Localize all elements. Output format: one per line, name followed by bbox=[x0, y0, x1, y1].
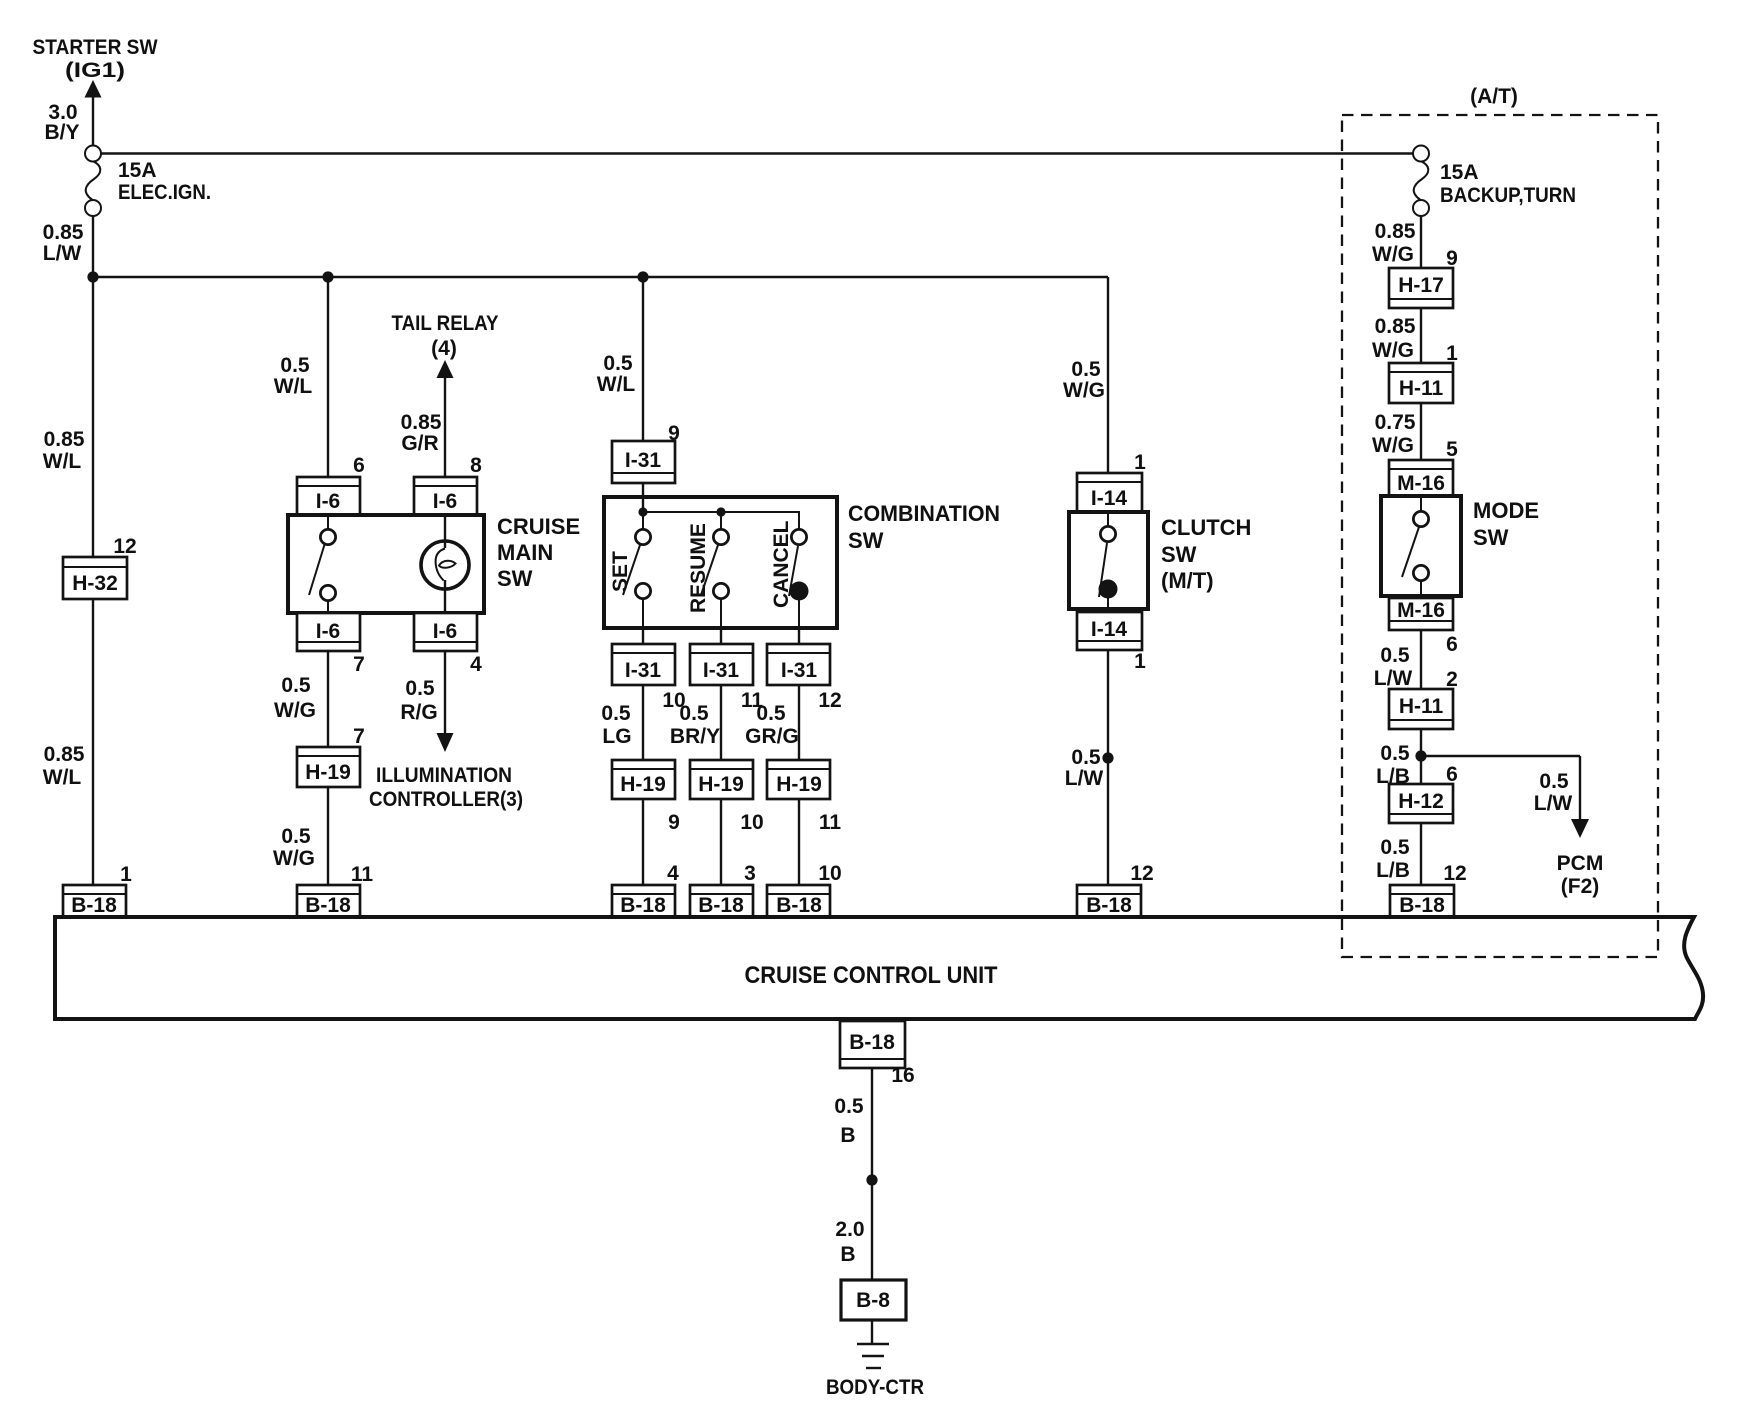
svg-text:BACKUP,TURN: BACKUP,TURN bbox=[1440, 184, 1576, 207]
switch box COMBINATION SW bbox=[604, 497, 1000, 628]
lamp in cruise main sw bbox=[421, 515, 469, 613]
svg-text:STARTER SW: STARTER SW bbox=[33, 36, 158, 59]
wire I-31 to box bbox=[642, 483, 644, 513]
connector B-18 pin 1 bbox=[63, 863, 132, 917]
connector B-8 bbox=[841, 1280, 906, 1320]
svg-text:10: 10 bbox=[818, 862, 841, 885]
svg-text:0.5: 0.5 bbox=[1380, 644, 1410, 667]
svg-text:(IG1): (IG1) bbox=[65, 59, 125, 82]
svg-text:10: 10 bbox=[740, 811, 763, 834]
svg-text:1: 1 bbox=[1134, 451, 1146, 474]
wire top feed bus bbox=[101, 152, 1413, 154]
svg-text:6: 6 bbox=[353, 454, 365, 477]
svg-text:4: 4 bbox=[667, 862, 679, 885]
svg-text:0.5: 0.5 bbox=[601, 702, 631, 725]
svg-text:MODE: MODE bbox=[1473, 498, 1539, 523]
svg-text:0.85: 0.85 bbox=[44, 428, 85, 451]
node STARTER SW (IG1) label bbox=[33, 36, 158, 82]
svg-text:LG: LG bbox=[602, 725, 631, 748]
svg-text:B/Y: B/Y bbox=[44, 121, 79, 144]
svg-text:CRUISE: CRUISE bbox=[497, 514, 580, 539]
connector B-18 pin 12 bbox=[1077, 862, 1154, 917]
svg-text:11: 11 bbox=[819, 811, 842, 834]
svg-text:9: 9 bbox=[1446, 247, 1458, 270]
connector B-18 pin 10 bbox=[767, 862, 842, 917]
svg-text:BR/Y: BR/Y bbox=[670, 725, 720, 748]
svg-text:L/B: L/B bbox=[1376, 859, 1410, 882]
switch contacts in cruise main sw bbox=[309, 515, 336, 613]
connector H-19 pin 11 bbox=[767, 760, 841, 834]
wire H-11 to M-16 bbox=[1420, 403, 1422, 460]
connector I-6 pin 6 bbox=[297, 454, 365, 515]
connector H-17 pin 9 bbox=[1389, 247, 1458, 308]
wire label 0.85 W/L upper bbox=[43, 428, 85, 473]
svg-text:0.5: 0.5 bbox=[679, 702, 709, 725]
connector H-19 pin 9 bbox=[612, 760, 680, 834]
svg-text:B-18: B-18 bbox=[849, 1031, 895, 1054]
svg-text:COMBINATION: COMBINATION bbox=[848, 501, 1000, 526]
svg-text:B: B bbox=[840, 1124, 855, 1147]
wires H-19 to B-18 row bbox=[643, 799, 799, 885]
wire H-11 to H-12 with junction bbox=[1415, 729, 1426, 784]
svg-text:16: 16 bbox=[891, 1064, 914, 1087]
svg-text:6: 6 bbox=[1446, 633, 1458, 656]
svg-text:ELEC.IGN.: ELEC.IGN. bbox=[118, 181, 211, 204]
svg-text:SW: SW bbox=[497, 566, 533, 591]
svg-text:1: 1 bbox=[1446, 342, 1458, 365]
wire label 0.85 L/W bbox=[43, 221, 84, 265]
connector I-31 pin 9 bbox=[612, 422, 680, 483]
svg-text:H-19: H-19 bbox=[698, 773, 744, 796]
svg-text:SET: SET bbox=[609, 551, 632, 592]
wire label 0.5 W/G lower bbox=[273, 825, 315, 870]
svg-text:B-18: B-18 bbox=[71, 894, 117, 917]
wire label 0.5 L/W right bbox=[1374, 644, 1413, 690]
wire label 0.5 L/W clutch bbox=[1065, 746, 1104, 790]
svg-text:PCM: PCM bbox=[1557, 852, 1604, 875]
svg-text:6: 6 bbox=[1446, 763, 1458, 786]
wire label 0.5 W/L bbox=[274, 354, 313, 398]
svg-text:I-31: I-31 bbox=[703, 659, 740, 682]
svg-text:5: 5 bbox=[1446, 438, 1458, 461]
wire H-12 to B-18 bbox=[1420, 823, 1422, 885]
svg-text:MAIN: MAIN bbox=[497, 540, 553, 565]
svg-text:W/G: W/G bbox=[274, 699, 316, 722]
wire comb outputs bbox=[643, 628, 799, 644]
svg-text:2.0: 2.0 bbox=[835, 1218, 864, 1241]
switch RESUME bbox=[687, 523, 729, 628]
wire label 0.5 BR/Y bbox=[670, 702, 720, 748]
svg-text:12: 12 bbox=[113, 535, 136, 558]
svg-text:H-12: H-12 bbox=[1398, 790, 1444, 813]
svg-text:0.5: 0.5 bbox=[1071, 358, 1101, 381]
svg-text:0.5: 0.5 bbox=[405, 677, 435, 700]
svg-text:W/L: W/L bbox=[597, 373, 636, 396]
svg-text:W/L: W/L bbox=[43, 450, 82, 473]
wire label 0.5 W/L comb bbox=[597, 352, 636, 396]
svg-text:0.5: 0.5 bbox=[280, 354, 310, 377]
connector I-31 pin 12 bbox=[767, 644, 842, 712]
svg-text:12: 12 bbox=[1130, 862, 1153, 885]
wire label 0.5 B bbox=[834, 1095, 864, 1147]
svg-text:BODY-CTR: BODY-CTR bbox=[826, 1376, 924, 1399]
wire label 3.0 B/Y bbox=[44, 101, 79, 144]
svg-text:L/W: L/W bbox=[1374, 667, 1413, 690]
switch box MODE SW bbox=[1381, 496, 1539, 596]
connector M-16 pin 6 bbox=[1389, 598, 1458, 656]
svg-text:B-18: B-18 bbox=[305, 894, 351, 917]
svg-text:GR/G: GR/G bbox=[745, 725, 799, 748]
svg-text:B-8: B-8 bbox=[856, 1289, 890, 1312]
svg-text:RESUME: RESUME bbox=[687, 523, 710, 613]
switch box CRUISE MAIN SW bbox=[288, 514, 580, 613]
svg-text:7: 7 bbox=[353, 725, 365, 748]
svg-text:H-11: H-11 bbox=[1399, 377, 1444, 400]
wire label 2.0 B bbox=[835, 1218, 864, 1266]
connector B-18 pin 11 bbox=[297, 863, 373, 917]
svg-text:H-11: H-11 bbox=[1399, 695, 1444, 718]
connector B-18 pin 4 bbox=[612, 862, 679, 917]
svg-text:0.5: 0.5 bbox=[1380, 836, 1410, 859]
svg-text:11: 11 bbox=[351, 863, 374, 886]
wire H-17 to H-11 bbox=[1420, 308, 1422, 363]
svg-text:0.85: 0.85 bbox=[401, 411, 442, 434]
svg-text:W/L: W/L bbox=[43, 766, 82, 789]
wire label 0.85 G/R bbox=[401, 411, 442, 455]
connector B-18 pin 12 right bbox=[1390, 862, 1467, 917]
switch contacts clutch bbox=[1099, 512, 1118, 609]
svg-text:15A: 15A bbox=[118, 159, 157, 182]
wire fuse to H-17 bbox=[1420, 216, 1422, 268]
svg-text:B-18: B-18 bbox=[1086, 894, 1132, 917]
svg-text:SW: SW bbox=[1473, 525, 1509, 550]
connector H-32 pin 12 bbox=[63, 535, 137, 599]
svg-text:L/W: L/W bbox=[1534, 792, 1573, 815]
svg-text:H-19: H-19 bbox=[305, 761, 351, 784]
svg-text:(A/T): (A/T) bbox=[1470, 85, 1518, 108]
svg-text:ILLUMINATION: ILLUMINATION bbox=[376, 764, 512, 787]
svg-text:I-6: I-6 bbox=[316, 490, 341, 513]
connector H-11 pin 1 bbox=[1389, 342, 1458, 403]
svg-text:1: 1 bbox=[120, 863, 132, 886]
svg-text:0.5: 0.5 bbox=[603, 352, 633, 375]
svg-text:0.5: 0.5 bbox=[1380, 742, 1410, 765]
connector B-18 pin 3 bbox=[690, 862, 756, 917]
svg-text:0.5: 0.5 bbox=[1071, 746, 1101, 769]
wire ground run bbox=[866, 1068, 877, 1280]
svg-text:H-32: H-32 bbox=[72, 572, 118, 595]
wires I-31 to H-19 row bbox=[643, 685, 799, 760]
connector H-12 pin 6 bbox=[1389, 763, 1458, 823]
connector H-19 pin 7 bbox=[297, 725, 365, 787]
svg-text:I-14: I-14 bbox=[1091, 487, 1128, 510]
box CRUISE CONTROL UNIT with torn right edge bbox=[55, 917, 1703, 1019]
switch SET bbox=[609, 529, 651, 628]
svg-text:12: 12 bbox=[818, 689, 841, 712]
node ILLUMINATION CONTROLLER(3) label bbox=[369, 764, 523, 811]
wire M-16 to H-11 bbox=[1420, 630, 1422, 689]
svg-text:0.85: 0.85 bbox=[1375, 220, 1416, 243]
switch contacts mode sw bbox=[1402, 496, 1429, 596]
svg-text:W/G: W/G bbox=[273, 847, 315, 870]
wire I-6 7 to H-19 bbox=[327, 651, 329, 747]
wire H-19 to B-18 bbox=[327, 787, 329, 885]
svg-text:I-14: I-14 bbox=[1091, 618, 1128, 641]
wire label 0.5 R/G bbox=[400, 677, 437, 724]
connector I-6 pin 4 bbox=[414, 613, 482, 676]
svg-text:0.5: 0.5 bbox=[834, 1095, 864, 1118]
svg-text:W/G: W/G bbox=[1063, 379, 1105, 402]
svg-text:B-18: B-18 bbox=[620, 894, 666, 917]
connector M-16 pin 5 bbox=[1389, 438, 1458, 496]
svg-text:CRUISE CONTROL UNIT: CRUISE CONTROL UNIT bbox=[745, 962, 998, 989]
arrow to TAIL RELAY bbox=[437, 360, 454, 477]
connector I-6 pin 8 bbox=[414, 454, 482, 515]
wire bus to combination sw bbox=[642, 277, 644, 441]
svg-text:0.85: 0.85 bbox=[43, 221, 84, 244]
connector I-14 pin 1 bottom bbox=[1077, 612, 1146, 673]
svg-text:9: 9 bbox=[668, 811, 680, 834]
svg-text:H-17: H-17 bbox=[1398, 274, 1444, 297]
wire internal bus of combination sw bbox=[638, 507, 799, 530]
svg-text:0.5: 0.5 bbox=[756, 702, 786, 725]
svg-text:3: 3 bbox=[744, 862, 756, 885]
fuse 15A BACKUP,TURN bbox=[1413, 146, 1576, 217]
svg-text:H-19: H-19 bbox=[620, 773, 666, 796]
fuse 15A ELEC.IGN. bbox=[85, 146, 211, 217]
svg-text:(M/T): (M/T) bbox=[1161, 568, 1214, 593]
svg-text:H-19: H-19 bbox=[776, 773, 822, 796]
svg-text:15A: 15A bbox=[1440, 161, 1479, 184]
svg-text:I-6: I-6 bbox=[433, 620, 458, 643]
svg-text:M-16: M-16 bbox=[1397, 599, 1445, 622]
svg-text:7: 7 bbox=[353, 653, 365, 676]
svg-text:W/G: W/G bbox=[1372, 434, 1414, 457]
svg-text:CLUTCH: CLUTCH bbox=[1161, 515, 1251, 540]
svg-text:W/G: W/G bbox=[1372, 339, 1414, 362]
wire label 0.5 W/G clutch bbox=[1063, 358, 1105, 402]
svg-text:0.5: 0.5 bbox=[281, 825, 311, 848]
svg-text:I-6: I-6 bbox=[433, 490, 458, 513]
arrow to STARTER SW bbox=[85, 80, 102, 146]
connector I-31 pin 11 bbox=[690, 644, 763, 712]
wire clutch to B-18 bbox=[1102, 650, 1113, 885]
switch box CLUTCH SW (M/T) bbox=[1069, 512, 1251, 609]
svg-text:G/R: G/R bbox=[401, 432, 438, 455]
svg-text:(4): (4) bbox=[431, 337, 457, 360]
svg-text:0.85: 0.85 bbox=[1375, 315, 1416, 338]
connector I-6 pin 7 bbox=[297, 613, 365, 676]
svg-text:0.5: 0.5 bbox=[1539, 770, 1569, 793]
A/T dashed boundary box bbox=[1342, 115, 1658, 957]
svg-text:4: 4 bbox=[470, 653, 482, 676]
svg-text:2: 2 bbox=[1446, 668, 1458, 691]
wire label 0.5 L/B upper bbox=[1376, 742, 1410, 788]
svg-text:1: 1 bbox=[1134, 650, 1146, 673]
svg-text:12: 12 bbox=[1443, 862, 1466, 885]
svg-text:W/L: W/L bbox=[274, 375, 313, 398]
svg-text:0.5: 0.5 bbox=[281, 674, 311, 697]
svg-text:I-6: I-6 bbox=[316, 620, 341, 643]
svg-text:0.75: 0.75 bbox=[1375, 411, 1416, 434]
wire label 0.85 W/G second bbox=[1372, 315, 1416, 362]
wire label 0.75 W/G bbox=[1372, 411, 1416, 457]
svg-text:B-18: B-18 bbox=[776, 894, 822, 917]
wire label 0.85 W/G first bbox=[1372, 220, 1416, 266]
wire label 0.5 LG bbox=[601, 702, 631, 748]
node PCM (F2) label bbox=[1557, 852, 1604, 898]
wire label 0.5 L/W to PCM bbox=[1534, 770, 1573, 815]
svg-text:(F2): (F2) bbox=[1561, 875, 1600, 898]
node TAIL RELAY (4) label bbox=[392, 312, 499, 360]
wire label 0.5 W/G bbox=[274, 674, 316, 722]
svg-text:SW: SW bbox=[1161, 542, 1197, 567]
svg-text:B: B bbox=[840, 1243, 855, 1266]
svg-text:SW: SW bbox=[848, 528, 884, 553]
connector I-31 pin 10 bbox=[612, 644, 686, 712]
wire branch to PCM bbox=[1421, 756, 1589, 838]
connector B-18 pin 16 below unit bbox=[840, 1021, 915, 1087]
svg-text:I-31: I-31 bbox=[781, 659, 818, 682]
wire label 0.5 L/B lower bbox=[1376, 836, 1410, 882]
svg-text:CONTROLLER(3): CONTROLLER(3) bbox=[369, 788, 523, 811]
connector H-19 pin 10 bbox=[690, 760, 764, 834]
svg-text:R/G: R/G bbox=[400, 701, 437, 724]
svg-text:B-18: B-18 bbox=[1399, 894, 1445, 917]
svg-text:TAIL RELAY: TAIL RELAY bbox=[392, 312, 499, 335]
svg-text:0.85: 0.85 bbox=[44, 743, 85, 766]
svg-text:B-18: B-18 bbox=[698, 894, 744, 917]
connector I-14 pin 1 top bbox=[1077, 451, 1146, 512]
node junction dots on bus bbox=[87, 271, 648, 282]
svg-text:I-31: I-31 bbox=[625, 449, 662, 472]
svg-text:L/W: L/W bbox=[43, 242, 82, 265]
svg-text:M-16: M-16 bbox=[1397, 472, 1445, 495]
wire branch to cruise main sw bbox=[327, 277, 329, 477]
switch CANCEL bbox=[770, 520, 809, 628]
svg-text:W/G: W/G bbox=[1372, 243, 1414, 266]
svg-text:L/W: L/W bbox=[1065, 767, 1104, 790]
wire label 0.85 W/L lower bbox=[43, 743, 85, 789]
wire label 0.5 GR/G bbox=[745, 702, 799, 748]
svg-text:I-31: I-31 bbox=[625, 659, 662, 682]
arrow to ILLUMINATION CONTROLLER bbox=[437, 651, 454, 752]
svg-text:8: 8 bbox=[470, 454, 482, 477]
connector H-11 pin 2 bbox=[1389, 668, 1458, 729]
ground BODY-CTR bbox=[826, 1320, 924, 1399]
wire second bus bbox=[93, 216, 1108, 885]
